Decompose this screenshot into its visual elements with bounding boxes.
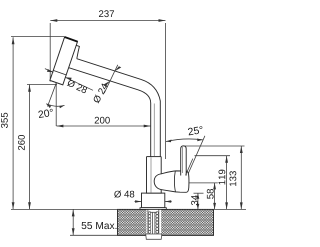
dim 237 left extension — [49, 23, 51, 82]
label dia 28 — [67, 79, 88, 94]
label 119 — [218, 170, 225, 185]
label 58 — [207, 189, 214, 199]
20 deg vertical reference — [55, 83, 57, 126]
body inner shading line — [150, 157, 152, 193]
dim 237 line — [50, 21, 165, 160]
20 deg head axis line — [48, 83, 57, 107]
25 deg arc arrows — [166, 140, 172, 143]
dim 34 line — [197, 193, 199, 209]
dim 200 arrows — [56, 125, 63, 128]
20 deg arc arrows — [46, 104, 51, 108]
dia 48 arrows — [135, 201, 142, 203]
shank through countertop — [148, 209, 159, 234]
label 355 — [1, 113, 8, 128]
head top extension — [11, 36, 64, 38]
dia 24 leader lower segment — [104, 81, 110, 94]
25 deg ghost lever line long — [188, 136, 205, 174]
handle boss knuckle — [154, 171, 189, 192]
dim 355 line — [11, 37, 118, 210]
tube inner shading line — [153, 104, 155, 157]
head top thick edge — [65, 37, 78, 42]
inclined spout tube upper wall — [77, 59, 141, 80]
label 133 — [229, 171, 236, 186]
dim 260 line — [27, 84, 57, 209]
collar step between head and tube — [76, 45, 79, 58]
dim 260 arrows — [28, 85, 31, 92]
dia 28 leader right segment — [65, 77, 93, 90]
head spray parting line — [53, 70, 66, 75]
label dia 48 — [114, 191, 134, 198]
handle lever — [181, 146, 187, 176]
20 deg arc — [46, 104, 64, 107]
counter top extension right — [214, 208, 247, 210]
spout vertical tube and curve (outer) — [141, 79, 160, 156]
label 34 — [191, 195, 198, 205]
boss cup divider — [174, 171, 175, 192]
dim 58 line — [214, 183, 216, 210]
spray head — [50, 37, 78, 85]
counter top extension left — [11, 208, 118, 210]
ext flange top for 34 — [194, 192, 204, 194]
countertop hatched section — [118, 209, 214, 236]
label 237 — [99, 10, 114, 17]
label 20deg — [38, 109, 54, 119]
faucet body column — [147, 157, 162, 194]
dim 237 arrows — [50, 19, 57, 22]
base cylinder — [142, 193, 165, 208]
shank threads — [148, 212, 158, 234]
dim 200 line — [56, 125, 150, 127]
ext lever top for 133 — [183, 145, 245, 147]
label 260 — [18, 135, 25, 150]
spout curve (inner) — [138, 90, 151, 157]
dia 28 leader left segment — [45, 69, 54, 73]
ext pivot for 119 — [195, 155, 231, 157]
label 55 Max — [82, 222, 117, 229]
dim 133 line — [240, 146, 242, 209]
label dia 24 — [92, 83, 108, 104]
ext boss bottom for 58 — [189, 182, 218, 184]
mounting nut below counter — [146, 234, 162, 239]
body top step — [147, 156, 162, 158]
dim 237 right extension — [164, 23, 166, 159]
dim 355 arrows — [12, 37, 15, 44]
25 deg ghost lever line short — [186, 159, 193, 176]
dia 24 line across tube — [110, 71, 115, 81]
base plate — [140, 208, 166, 210]
label 200 — [95, 117, 110, 124]
label 25deg — [188, 126, 204, 136]
inclined spout tube lower wall — [68, 67, 138, 89]
counter bottom extension — [70, 234, 118, 236]
dim 119 line — [226, 156, 228, 210]
dim 55 max line — [72, 209, 74, 235]
dia 24 leader upper segment — [115, 65, 118, 71]
head bottom extension — [27, 83, 57, 85]
25 deg arc — [166, 139, 203, 142]
right side extensions — [183, 146, 247, 209]
